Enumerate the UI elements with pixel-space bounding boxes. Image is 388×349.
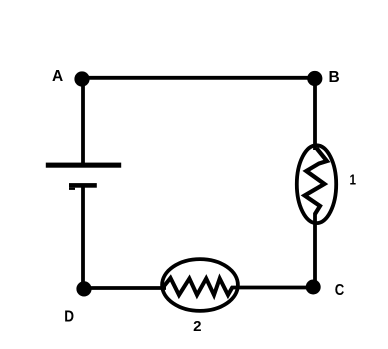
svg-text:C: C — [335, 282, 345, 299]
svg-text:B: B — [329, 69, 340, 86]
svg-text:1: 1 — [350, 171, 357, 188]
svg-text:2: 2 — [193, 318, 201, 335]
svg-text:A: A — [52, 68, 63, 85]
svg-text:D: D — [64, 309, 74, 326]
